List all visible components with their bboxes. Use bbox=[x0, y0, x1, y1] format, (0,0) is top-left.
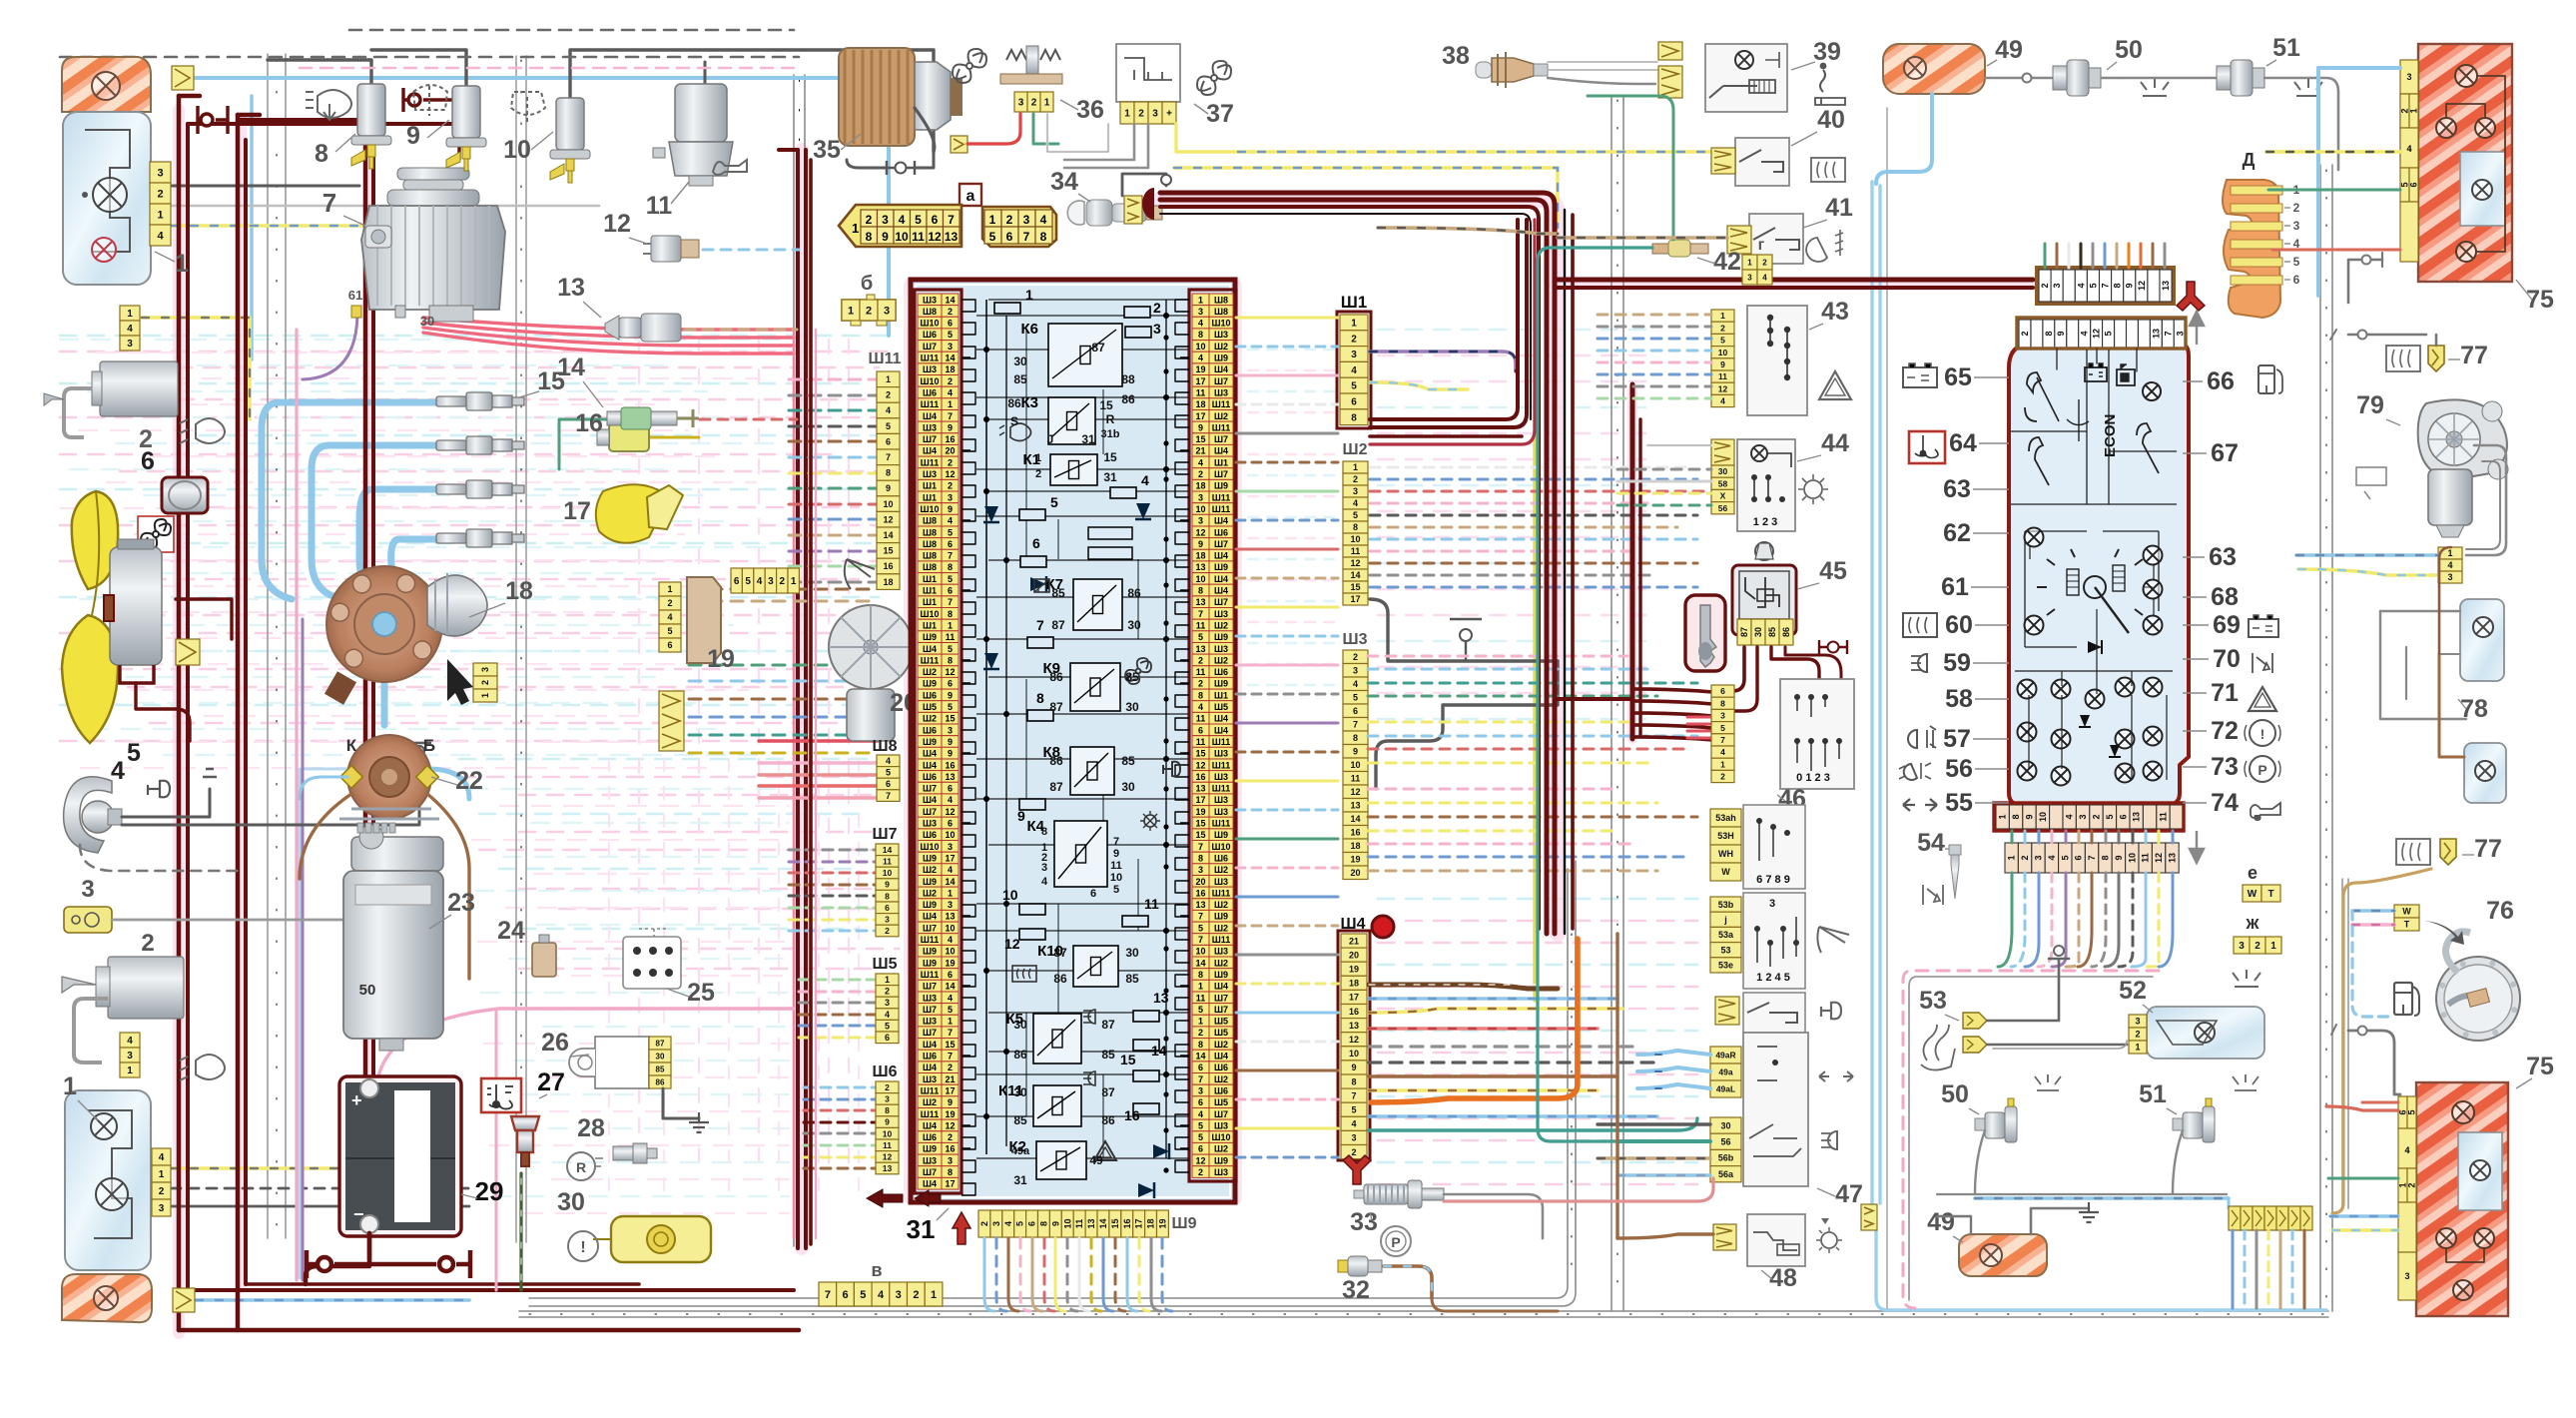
zigzag connector top-left bbox=[172, 66, 194, 90]
svg-text:9: 9 bbox=[2025, 814, 2035, 819]
svg-text:70: 70 bbox=[2213, 645, 2241, 673]
svg-text:Ш3: Ш3 bbox=[923, 819, 937, 829]
relay К5 bbox=[1006, 1011, 1082, 1063]
connector 52 cells bbox=[2129, 1015, 2147, 1054]
wiper icon small bbox=[845, 559, 875, 589]
svg-text:1: 1 bbox=[2409, 108, 2419, 113]
wire harness trunk lines bbox=[268, 54, 2348, 1317]
connector Ш6 bbox=[876, 1081, 899, 1174]
svg-text:11: 11 bbox=[1196, 667, 1206, 677]
svg-text:Ш11: Ш11 bbox=[1212, 935, 1231, 945]
diode D4 bbox=[1030, 576, 1046, 592]
relay К8 bbox=[1043, 744, 1115, 795]
svg-text:6: 6 bbox=[1198, 725, 1203, 735]
label 43 bbox=[1809, 298, 1849, 330]
svg-text:86: 86 bbox=[1781, 627, 1791, 637]
label 75 bottom bbox=[2516, 1053, 2554, 1088]
icon fog front 57 bbox=[1908, 726, 1936, 748]
fuse 11 bbox=[1122, 896, 1159, 927]
svg-text:13: 13 bbox=[2161, 281, 2171, 291]
svg-text:3: 3 bbox=[991, 1221, 1001, 1226]
svg-text:19: 19 bbox=[707, 645, 735, 673]
svg-text:87: 87 bbox=[1053, 946, 1067, 960]
diode D2 bbox=[983, 653, 999, 669]
label 61 30 bbox=[348, 288, 434, 329]
svg-text:57: 57 bbox=[1943, 725, 1971, 753]
svg-text:7: 7 bbox=[886, 452, 891, 462]
svg-text:11: 11 bbox=[946, 632, 956, 642]
svg-text:15: 15 bbox=[1099, 398, 1113, 412]
svg-text:75: 75 bbox=[2526, 1053, 2554, 1080]
svg-text:1: 1 bbox=[948, 399, 953, 409]
label 26 bbox=[541, 1029, 589, 1057]
svg-text:T: T bbox=[2404, 920, 2410, 930]
zigzag 39a bbox=[1658, 42, 1682, 60]
svg-text:г: г bbox=[1758, 237, 1765, 254]
svg-text:2: 2 bbox=[1031, 98, 1037, 109]
svg-text:8: 8 bbox=[886, 468, 891, 478]
svg-text:Ш5: Ш5 bbox=[1214, 1028, 1228, 1038]
svg-text:3: 3 bbox=[948, 492, 953, 502]
svg-text:4: 4 bbox=[2080, 331, 2090, 336]
svg-text:Ш4: Ш4 bbox=[1214, 586, 1228, 596]
connector block of headlamp 2 bbox=[152, 1148, 171, 1216]
svg-text:Ш4: Ш4 bbox=[1214, 714, 1228, 724]
svg-text:2: 2 bbox=[979, 1221, 989, 1226]
svg-text:6: 6 bbox=[932, 213, 939, 227]
svg-text:14: 14 bbox=[1195, 1052, 1205, 1062]
svg-text:27: 27 bbox=[537, 1068, 565, 1096]
svg-text:Ш9: Ш9 bbox=[1214, 912, 1228, 922]
svg-text:4: 4 bbox=[1041, 876, 1048, 888]
svg-text:W: W bbox=[2402, 907, 2411, 917]
svg-text:11: 11 bbox=[1074, 1219, 1084, 1229]
svg-text:4: 4 bbox=[948, 388, 953, 398]
svg-text:9: 9 bbox=[1353, 747, 1358, 757]
svg-text:1: 1 bbox=[1720, 311, 1725, 321]
svg-text:9: 9 bbox=[948, 504, 953, 514]
connector Ш3 bbox=[1343, 650, 1368, 880]
svg-text:2: 2 bbox=[1198, 1028, 1203, 1038]
icon fuel 76 bbox=[2394, 983, 2419, 1016]
svg-text:Ш11: Ш11 bbox=[1212, 819, 1231, 829]
svg-text:14: 14 bbox=[1350, 570, 1360, 580]
svg-text:Ш7: Ш7 bbox=[923, 982, 937, 992]
svg-text:Ш6: Ш6 bbox=[923, 1052, 937, 1062]
svg-text:1: 1 bbox=[667, 584, 672, 594]
svg-text:8: 8 bbox=[1036, 690, 1044, 706]
svg-text:Ш4: Ш4 bbox=[1214, 574, 1228, 584]
zigzag 41 bbox=[1727, 226, 1751, 254]
fuse 8 bbox=[1027, 690, 1053, 721]
label 49 bottom bbox=[1927, 1208, 1963, 1242]
svg-text:15: 15 bbox=[1195, 830, 1205, 840]
svg-text:23: 23 bbox=[447, 889, 475, 917]
relay К10 bbox=[1037, 943, 1118, 987]
svg-text:47: 47 bbox=[1835, 1180, 1863, 1208]
diode D3 bbox=[1135, 503, 1151, 519]
svg-text:22: 22 bbox=[455, 767, 483, 795]
svg-text:5: 5 bbox=[1353, 693, 1358, 703]
electric fan 5 blades bbox=[62, 491, 118, 743]
svg-text:19: 19 bbox=[1158, 1218, 1168, 1228]
maroon bottom link bbox=[367, 1233, 372, 1260]
label 57 bbox=[1943, 725, 2009, 753]
svg-text:17: 17 bbox=[563, 497, 591, 525]
svg-text:52: 52 bbox=[2119, 977, 2147, 1005]
svg-text:3: 3 bbox=[1351, 1133, 1356, 1143]
svg-text:Ш2: Ш2 bbox=[1214, 923, 1228, 933]
47 mid box bbox=[1743, 893, 1805, 989]
relay 26 wires bbox=[663, 1088, 709, 1132]
svg-text:15: 15 bbox=[1120, 1052, 1136, 1067]
lamp 34 bbox=[1067, 200, 1162, 226]
svg-text:30: 30 bbox=[1753, 627, 1763, 637]
rear wiper motor 79 bbox=[2418, 399, 2508, 537]
svg-text:18: 18 bbox=[945, 364, 955, 374]
svg-text:30: 30 bbox=[1121, 780, 1135, 794]
fuse 13 bbox=[1133, 990, 1169, 1022]
label 49 top bbox=[1987, 36, 2023, 66]
svg-text:7: 7 bbox=[1353, 720, 1358, 730]
white rect icon bbox=[2356, 467, 2386, 499]
svg-text:Ш7: Ш7 bbox=[1214, 597, 1228, 607]
label 51 top bbox=[2266, 34, 2300, 66]
svg-text:4: 4 bbox=[2076, 283, 2086, 288]
heater icon 40 bbox=[1811, 158, 1845, 182]
relay К2 bbox=[1009, 1138, 1087, 1179]
svg-text:Ш2: Ш2 bbox=[1214, 342, 1228, 352]
label 9 bbox=[406, 120, 449, 150]
svg-text:1: 1 bbox=[127, 1065, 133, 1076]
svg-text:Ш6: Ш6 bbox=[1214, 1063, 1228, 1072]
svg-text:31b: 31b bbox=[1101, 428, 1120, 440]
svg-text:4: 4 bbox=[1198, 1109, 1203, 1119]
icon headlamp K11 bbox=[1083, 1071, 1095, 1085]
svg-text:8: 8 bbox=[948, 609, 953, 619]
svg-text:3: 3 bbox=[884, 306, 890, 318]
svg-text:3: 3 bbox=[882, 213, 889, 227]
svg-text:2: 2 bbox=[1006, 213, 1013, 227]
svg-text:12: 12 bbox=[1350, 558, 1360, 568]
svg-text:86: 86 bbox=[1127, 586, 1141, 600]
svg-text:2: 2 bbox=[141, 930, 154, 957]
cluster bottom pin strip bbox=[1994, 803, 2184, 831]
svg-text:Ш3: Ш3 bbox=[1214, 947, 1228, 957]
maroon vertical 1635 bbox=[1632, 384, 1640, 739]
svg-text:Ш4: Ш4 bbox=[1214, 516, 1228, 526]
connector Ш11 bbox=[877, 371, 900, 589]
vacuum unit of distributor bbox=[427, 573, 487, 636]
label 47 bbox=[1817, 1180, 1863, 1208]
svg-text:39: 39 bbox=[1813, 38, 1841, 66]
svg-text:3: 3 bbox=[2293, 219, 2300, 233]
label 17 bbox=[563, 497, 591, 525]
svg-text:Ш9: Ш9 bbox=[1214, 1155, 1228, 1165]
svg-text:2: 2 bbox=[1035, 468, 1041, 480]
label 46 bbox=[1777, 785, 1806, 813]
svg-text:3: 3 bbox=[1198, 516, 1203, 526]
fuse box right pin strip bbox=[1189, 290, 1236, 1181]
svg-text:8: 8 bbox=[1039, 1221, 1049, 1226]
green wire 42b bbox=[1588, 96, 1673, 240]
svg-text:4: 4 bbox=[886, 756, 891, 766]
svg-text:5: 5 bbox=[989, 230, 996, 244]
svg-text:Ш7: Ш7 bbox=[923, 923, 937, 933]
label 27 bbox=[537, 1068, 565, 1098]
brown wire top bbox=[2439, 547, 2451, 654]
svg-text:Ш4: Ш4 bbox=[923, 446, 937, 456]
svg-text:11: 11 bbox=[1351, 774, 1361, 784]
svg-text:15: 15 bbox=[945, 714, 955, 724]
svg-text:4: 4 bbox=[667, 612, 672, 622]
svg-text:Ш8: Ш8 bbox=[923, 539, 937, 549]
headlight icon 47 bbox=[1821, 1131, 1837, 1149]
svg-text:j: j bbox=[1723, 915, 1727, 925]
svg-text:8: 8 bbox=[1353, 733, 1358, 743]
svg-text:Ш9: Ш9 bbox=[1214, 481, 1228, 491]
svg-text:Ш9: Ш9 bbox=[923, 877, 937, 887]
block 44 bbox=[1737, 439, 1795, 531]
label 56 bbox=[1945, 755, 2009, 783]
fog rear icon bbox=[1806, 230, 1843, 262]
tail lamp unit 75 bottom bbox=[2416, 1082, 2508, 1316]
Ш3 wires bbox=[1368, 656, 1697, 871]
svg-text:7: 7 bbox=[1351, 1090, 1356, 1100]
svg-text:Ш3: Ш3 bbox=[923, 1155, 937, 1165]
svg-text:53b: 53b bbox=[1718, 900, 1734, 910]
svg-text:16: 16 bbox=[945, 434, 955, 444]
svg-text:11: 11 bbox=[1196, 621, 1206, 631]
svg-text:4: 4 bbox=[948, 865, 953, 875]
license lamp 78a bbox=[2460, 599, 2504, 681]
zigzag 40 bbox=[1711, 148, 1735, 174]
relay К1 bbox=[1023, 451, 1098, 485]
svg-text:59: 59 bbox=[1943, 649, 1971, 677]
decor pink harness texture bbox=[60, 330, 1697, 1213]
svg-text:10: 10 bbox=[1350, 760, 1360, 770]
svg-text:63: 63 bbox=[2209, 543, 2237, 571]
fan icon 35 bbox=[953, 49, 986, 83]
51 wire right bbox=[2264, 78, 2338, 170]
svg-text:2: 2 bbox=[157, 189, 163, 201]
svg-text:8: 8 bbox=[1351, 412, 1357, 423]
Ш2 wires bbox=[1370, 467, 1707, 587]
svg-text:3: 3 bbox=[896, 1289, 902, 1301]
svg-text:11: 11 bbox=[883, 857, 892, 867]
svg-text:10: 10 bbox=[503, 136, 531, 164]
svg-text:20: 20 bbox=[945, 446, 955, 456]
svg-text:10: 10 bbox=[945, 923, 955, 933]
svg-text:10: 10 bbox=[1002, 887, 1018, 903]
icon window K7 bbox=[1034, 579, 1049, 592]
svg-text:Ш2: Ш2 bbox=[1214, 865, 1228, 875]
svg-text:Ш1: Ш1 bbox=[923, 481, 937, 491]
svg-text:13: 13 bbox=[1195, 900, 1205, 910]
fuse 9 bbox=[1017, 799, 1045, 824]
band wires fusebox to connectors bbox=[1236, 318, 1338, 1157]
svg-text:12: 12 bbox=[945, 1120, 955, 1130]
svg-text:2: 2 bbox=[1762, 258, 1767, 267]
svg-text:86: 86 bbox=[1049, 754, 1063, 768]
fuse 6 bbox=[1020, 535, 1046, 567]
svg-text:3: 3 bbox=[1153, 321, 1161, 337]
icon choke 54 bbox=[1923, 885, 1943, 905]
svg-text:34: 34 bbox=[1050, 168, 1078, 196]
svg-text:40: 40 bbox=[1817, 106, 1845, 134]
svg-text:Ш5: Ш5 bbox=[873, 956, 898, 973]
svg-text:9: 9 bbox=[885, 1117, 890, 1127]
label 42 bbox=[1697, 248, 1741, 276]
svg-text:49: 49 bbox=[1089, 1153, 1103, 1167]
svg-text:К3: К3 bbox=[1021, 394, 1039, 411]
svg-text:12: 12 bbox=[603, 210, 631, 238]
svg-text:Ш11: Ш11 bbox=[1212, 504, 1231, 514]
connector 19 bbox=[659, 577, 721, 663]
svg-text:86: 86 bbox=[1007, 396, 1021, 410]
svg-text:2: 2 bbox=[948, 1063, 953, 1072]
label Ш9 bbox=[1172, 1215, 1197, 1232]
svg-text:68: 68 bbox=[2211, 583, 2239, 611]
svg-text:14: 14 bbox=[945, 354, 955, 363]
svg-text:6: 6 bbox=[948, 319, 953, 329]
relay 26 bbox=[569, 1037, 671, 1088]
svg-text:12: 12 bbox=[1350, 787, 1360, 797]
horn 4 bbox=[64, 777, 122, 853]
label 39 bbox=[1791, 38, 1841, 70]
svg-text:54: 54 bbox=[1917, 829, 1945, 857]
svg-text:4: 4 bbox=[2404, 1145, 2409, 1155]
svg-text:53: 53 bbox=[1720, 945, 1730, 955]
svg-text:2: 2 bbox=[780, 576, 786, 587]
svg-text:16: 16 bbox=[1350, 828, 1360, 838]
temp gauge icon 27 bbox=[481, 1078, 521, 1112]
svg-text:4: 4 bbox=[948, 993, 953, 1003]
svg-text:Ш4: Ш4 bbox=[1214, 725, 1228, 735]
svg-text:1: 1 bbox=[948, 888, 953, 898]
label 4 bbox=[111, 757, 125, 785]
svg-text:12: 12 bbox=[2154, 853, 2164, 863]
svg-text:Ш4: Ш4 bbox=[923, 1179, 937, 1189]
svg-text:4: 4 bbox=[159, 1152, 165, 1163]
svg-text:7: 7 bbox=[2163, 331, 2173, 336]
svg-text:8: 8 bbox=[1353, 522, 1358, 532]
svg-text:9: 9 bbox=[1351, 1063, 1356, 1072]
label 64 bbox=[1949, 429, 2009, 457]
svg-text:16: 16 bbox=[1122, 1218, 1132, 1228]
label 41 bbox=[1803, 194, 1853, 228]
svg-text:85: 85 bbox=[1051, 586, 1065, 600]
svg-text:1: 1 bbox=[2007, 855, 2017, 860]
door switch 51 bottom bbox=[2173, 1098, 2215, 1142]
svg-text:4: 4 bbox=[127, 1036, 133, 1047]
svg-text:Ш5: Ш5 bbox=[1214, 702, 1228, 712]
label 75 top bbox=[2516, 280, 2554, 314]
svg-text:11: 11 bbox=[1110, 860, 1122, 872]
svg-text:3: 3 bbox=[885, 1094, 890, 1104]
handbrake switch symbol bbox=[1450, 619, 1482, 661]
svg-text:10: 10 bbox=[1350, 534, 1360, 544]
bottom right bundle bbox=[2233, 1230, 2304, 1308]
svg-text:0 1 2 3: 0 1 2 3 bbox=[1796, 772, 1830, 784]
fuse 12 bbox=[1004, 929, 1045, 952]
svg-text:2: 2 bbox=[2040, 283, 2050, 288]
svg-text:Ш4: Ш4 bbox=[923, 795, 937, 805]
svg-text:86: 86 bbox=[1101, 1113, 1115, 1127]
svg-text:2: 2 bbox=[913, 1289, 919, 1301]
label в bbox=[871, 1260, 882, 1280]
label 31 bbox=[907, 1208, 949, 1244]
svg-text:30: 30 bbox=[1013, 1018, 1027, 1032]
svg-text:53a: 53a bbox=[1718, 930, 1734, 940]
svg-text:6: 6 bbox=[734, 576, 740, 587]
svg-text:38: 38 bbox=[1442, 42, 1470, 70]
svg-text:4: 4 bbox=[1353, 679, 1358, 689]
svg-text:3: 3 bbox=[2239, 941, 2245, 952]
icon int light 50 bbox=[2141, 79, 2169, 96]
svg-text:4: 4 bbox=[157, 231, 164, 243]
svg-text:20: 20 bbox=[1195, 877, 1205, 887]
svg-text:Ш3: Ш3 bbox=[1214, 795, 1228, 805]
svg-text:3: 3 bbox=[948, 842, 953, 852]
svg-text:Ш9: Ш9 bbox=[923, 947, 937, 957]
svg-text:Ш11: Ш11 bbox=[921, 655, 940, 665]
connector Ш7 bbox=[876, 844, 899, 937]
tail lamp unit 75 top bbox=[2418, 44, 2512, 282]
terminal junction maroon B bbox=[403, 88, 459, 160]
label 50 bottom bbox=[1941, 1080, 1979, 1114]
svg-text:2: 2 bbox=[2020, 855, 2030, 860]
svg-text:Ш2: Ш2 bbox=[1214, 1040, 1228, 1050]
svg-text:2: 2 bbox=[1153, 300, 1161, 316]
fan motor (item 5 motor) bbox=[104, 539, 162, 683]
svg-text:16: 16 bbox=[575, 409, 603, 437]
svg-text:13: 13 bbox=[2132, 812, 2142, 822]
svg-text:10: 10 bbox=[945, 947, 955, 957]
component 6 (sensor on fan) bbox=[162, 477, 208, 513]
svg-text:60: 60 bbox=[1945, 611, 1973, 639]
P icon bbox=[1381, 1226, 1411, 1256]
label 72 right bbox=[2183, 717, 2239, 745]
icon headlamp K5 bbox=[1083, 1010, 1095, 1024]
label 63 right bbox=[2183, 543, 2237, 571]
white strip above cluster bbox=[2037, 268, 2174, 304]
svg-text:3: 3 bbox=[81, 876, 94, 903]
svg-text:4: 4 bbox=[1351, 1119, 1356, 1129]
svg-text:8: 8 bbox=[2044, 331, 2054, 336]
fuse 5 bbox=[1019, 494, 1058, 520]
Ш4 wires bbox=[1369, 985, 1697, 1130]
svg-text:14: 14 bbox=[1195, 958, 1205, 968]
cluster top pin strip bbox=[2017, 318, 2186, 349]
red dot bbox=[1372, 916, 1394, 938]
component 2 upper (fog unit) bbox=[44, 361, 178, 437]
svg-text:16: 16 bbox=[1349, 1007, 1359, 1017]
label 15 bbox=[519, 367, 565, 397]
svg-text:5: 5 bbox=[915, 213, 922, 227]
maroon fan into 46 cells bbox=[1555, 689, 1712, 740]
svg-text:Ш1: Ш1 bbox=[923, 574, 937, 584]
label 28 bbox=[577, 1114, 605, 1142]
svg-text:3: 3 bbox=[480, 667, 490, 672]
label б bbox=[861, 273, 873, 295]
spark plug 4 bbox=[436, 529, 524, 547]
svg-text:13: 13 bbox=[945, 230, 959, 244]
svg-text:5: 5 bbox=[2293, 255, 2300, 269]
connector 2 upper cells bbox=[120, 306, 140, 351]
svg-text:14: 14 bbox=[883, 530, 893, 540]
label 54 bbox=[1917, 829, 1949, 857]
